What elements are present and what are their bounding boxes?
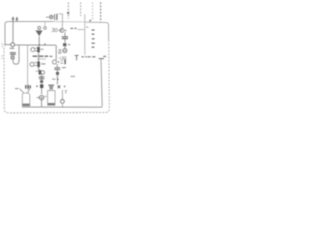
resistor blob bbox=[40, 80, 43, 83]
small parts under rail bbox=[44, 22, 46, 27]
transistor V2 bbox=[30, 62, 34, 66]
transistor V5 top chain bbox=[60, 28, 64, 32]
label 30B with line bbox=[70, 27, 76, 29]
input jack X1 bbox=[11, 43, 15, 47]
wire bbox=[41, 75, 43, 88]
top-center lamp cluster bbox=[46, 16, 49, 18]
can cluster / ground over GB2 bbox=[48, 85, 54, 88]
side marks right of corner bbox=[59, 49, 62, 51]
transistor V3 bbox=[39, 70, 41, 75]
lower-left chain: circle + wire to rail bbox=[61, 90, 63, 100]
wire: tick from left rail to jack bbox=[5, 44, 11, 46]
label row ~30 bbox=[44, 55, 52, 57]
resistor blob bbox=[56, 72, 59, 75]
output jack bar + wire down bbox=[99, 58, 104, 60]
node dot bbox=[38, 44, 40, 46]
antenna arrow 1 bbox=[12, 17, 14, 22]
wire: center column between cans bbox=[41, 88, 43, 107]
wire bbox=[56, 64, 58, 67]
label M dark bbox=[26, 85, 30, 89]
labels near x=88-95 y=52-58 bbox=[88, 55, 107, 57]
resistor blob bbox=[63, 43, 66, 46]
transistor V4 bbox=[52, 60, 56, 64]
dashed terminal column x=92.5 bbox=[92, 2, 94, 20]
vertical label column x=93 bbox=[92, 30, 95, 47]
capacitor C5 bbox=[54, 68, 60, 70]
wire: feed down to pot bbox=[84, 22, 86, 55]
wire: stage chain x=38.5 bbox=[38, 53, 40, 70]
battery GB2 (right can) bbox=[48, 88, 55, 105]
wire: outer supply loop (top rail / right side / bottom frame / left side) bbox=[4, 22, 109, 113]
label above V2 bbox=[37, 58, 46, 60]
svg-text:≈30: ≈30 bbox=[59, 56, 67, 61]
jack circle bbox=[63, 49, 67, 53]
battery GB1 (left can) bbox=[15, 89, 30, 106]
wire chain A bbox=[64, 32, 66, 48]
capacitor C4 bbox=[62, 37, 68, 39]
plus mark bbox=[44, 43, 46, 45]
corner wire top middle bbox=[59, 14, 63, 28]
node: jack sleeve circle bbox=[11, 56, 14, 59]
marks left of chainA bottom bbox=[61, 29, 63, 32]
transistor V1 bbox=[31, 48, 35, 52]
label C1 bbox=[10, 47, 14, 49]
pot R with T bbox=[75, 55, 79, 60]
label a) left margin bbox=[1, 44, 3, 59]
stub bbox=[84, 14, 86, 22]
label row 30mV bbox=[33, 55, 49, 57]
wire bbox=[56, 70, 58, 85]
antenna arrow 2 bbox=[16, 17, 18, 22]
dashed terminal column x=100.5 bbox=[100, 2, 102, 22]
wire: signal line to first stage bbox=[15, 44, 56, 46]
wire: corner down at x=56 bbox=[55, 45, 57, 60]
wire: U-loop from C1 up to signal line bbox=[13, 46, 19, 65]
junction cluster above can bbox=[40, 84, 43, 88]
capacitor C1 bbox=[10, 53, 16, 55]
meter P1 circle bbox=[39, 95, 43, 99]
wire: antenna lead down to input jack bbox=[12, 22, 14, 43]
dashed terminal column x=68.5 bbox=[67, 2, 69, 18]
capacitor C3 bbox=[39, 77, 45, 79]
svg-text:30: 30 bbox=[52, 28, 58, 34]
plus mark near rail bbox=[89, 19, 91, 21]
dashed terminal column x=80.5 bbox=[80, 2, 82, 16]
wire: diamond stem bbox=[38, 36, 40, 45]
wire: feedback left vertical bbox=[27, 45, 29, 90]
transducer B1 (diamond) bbox=[36, 31, 42, 36]
wire: bottom rail bbox=[22, 106, 102, 108]
